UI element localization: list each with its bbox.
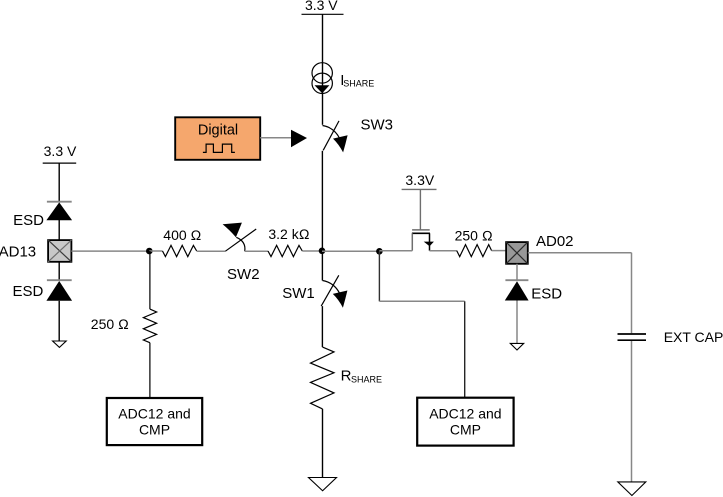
transistor left leg [411, 233, 413, 250]
svg-text:CMP: CMP [139, 421, 170, 437]
wire pad AD02 to ESD right [516, 264, 518, 280]
node B junction dot [319, 248, 326, 255]
capacitor EXT CAP plate lower [618, 339, 647, 341]
switch SW1 arc [323, 281, 340, 294]
svg-text:ESD: ESD [13, 283, 44, 300]
wire left rail to ESD diode [58, 163, 60, 202]
svg-text:R: R [341, 368, 352, 385]
wire 400 ohm to SW2 [197, 250, 226, 252]
wire 250 ohm to pad AD02 [492, 250, 507, 252]
ESD diode lower cathode bar [47, 279, 72, 281]
svg-text:Digital: Digital [198, 122, 238, 138]
resistor 250 ohm right [457, 245, 492, 257]
svg-text:ADC12 and: ADC12 and [118, 406, 190, 422]
resistor 3.2 kohm [268, 245, 302, 256]
wire node C down [378, 251, 380, 301]
wire node B to SW1 [321, 251, 323, 281]
current source arrow [315, 85, 330, 93]
ground center [309, 478, 337, 491]
wire transistor to 250 ohm [430, 250, 457, 252]
wire ESD right to ground [516, 301, 518, 344]
wire to right ADC block vertical [464, 301, 466, 397]
svg-text:3.3V: 3.3V [405, 172, 434, 188]
svg-text:CMP: CMP [450, 421, 481, 437]
svg-text:AD13: AD13 [0, 243, 36, 260]
pulse waveform icon [203, 144, 235, 152]
power rail 3.3V transistor bar [402, 188, 437, 190]
svg-text:3.2 kΩ: 3.2 kΩ [268, 226, 309, 242]
current source I_SHARE circle upper [312, 63, 332, 83]
svg-text:SHARE: SHARE [343, 78, 374, 88]
svg-text:ESD: ESD [13, 212, 44, 229]
transistor right leg [429, 233, 431, 250]
ground small right [510, 343, 523, 350]
power rail 3.3V top bar [302, 13, 344, 15]
svg-text:SHARE: SHARE [351, 374, 382, 384]
switch SW2 arrowhead [223, 223, 242, 238]
node C junction dot [376, 248, 383, 255]
ground small left [53, 341, 67, 347]
switch SW1 blade [321, 275, 339, 306]
svg-text:ESD: ESD [531, 286, 562, 303]
switch SW3 blade [323, 121, 339, 150]
svg-text:AD02: AD02 [536, 233, 574, 250]
pad AD13 [48, 240, 71, 262]
svg-text:3.3 V: 3.3 V [44, 143, 77, 159]
wire to right ADC block horizontal [379, 300, 464, 302]
svg-text:3.3 V: 3.3 V [305, 0, 338, 13]
ADC12 and CMP block left [107, 398, 202, 445]
wire R_SHARE to ground [322, 409, 324, 478]
transistor gate plate [412, 229, 430, 231]
wire ESD to pad AD13 [58, 220, 60, 240]
switch SW1 arrowhead [333, 291, 348, 308]
wire digital box to arrow [260, 137, 292, 139]
wire node B to node C [322, 250, 379, 252]
wire pad AD13 to ESD lower [58, 262, 60, 280]
ESD diode upper cathode bar [47, 201, 72, 203]
wire ESD lower to ground [58, 301, 60, 341]
wire through current source [322, 61, 324, 125]
node A junction dot [146, 248, 153, 255]
svg-text:400 Ω: 400 Ω [163, 227, 201, 243]
ADC12 and CMP block right [417, 398, 513, 446]
switch SW2 blade [225, 229, 256, 251]
resistor 400 ohm [163, 245, 197, 256]
switch SW3 arc [323, 126, 340, 139]
wire SW1 to R_SHARE [321, 306, 323, 347]
svg-text:SW2: SW2 [227, 266, 260, 283]
wire 3.3V to current source [322, 14, 324, 61]
transistor channel [412, 232, 430, 234]
svg-text:EXT CAP: EXT CAP [664, 329, 723, 345]
wire down to ext cap [631, 253, 633, 334]
transistor source arrow [424, 242, 434, 247]
arrowhead digital to SW3 [291, 130, 307, 147]
svg-text:250 Ω: 250 Ω [91, 316, 129, 332]
ESD diode upper triangle [46, 202, 72, 220]
switch SW2 arc [236, 237, 245, 251]
wire SW3 to center node [321, 151, 323, 251]
svg-text:SW1: SW1 [282, 285, 315, 302]
power rail 3.3V left bar [43, 162, 76, 164]
ground right [618, 482, 646, 496]
ESD diode right triangle [505, 281, 529, 300]
svg-text:SW3: SW3 [361, 117, 394, 134]
capacitor EXT CAP plate upper [618, 333, 647, 335]
wire pad AD13 to node A [71, 250, 147, 252]
wire node A to 250 ohm left [149, 251, 151, 309]
svg-text:ADC12 and: ADC12 and [429, 406, 501, 422]
digital control box [175, 117, 260, 160]
svg-text:250 Ω: 250 Ω [455, 227, 493, 243]
wire pad AD02 to ext cap [528, 252, 632, 254]
wire 3.2k to node B [302, 250, 322, 252]
ESD diode right cathode bar [505, 279, 528, 281]
wire node C to transistor [379, 250, 412, 252]
switch SW3 arrowhead [333, 135, 348, 152]
wire 250 ohm left to ADC block [149, 343, 151, 398]
resistor 250 ohm left [143, 309, 156, 343]
resistor R_SHARE [311, 347, 335, 409]
transistor gate wire [419, 189, 421, 230]
wire node A to 400 ohm [149, 250, 162, 252]
wire SW2 to 3.2k [245, 250, 268, 252]
ESD diode lower triangle [46, 281, 72, 301]
pad AD02 [506, 242, 528, 264]
wire ext cap to ground [631, 341, 633, 482]
current source I_SHARE circle lower [312, 73, 332, 93]
